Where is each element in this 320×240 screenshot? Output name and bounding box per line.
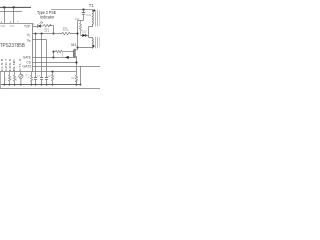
LED emission arrows [40, 22, 43, 25]
wire second rail [0, 11, 22, 13]
svg-text:TPS23785B: TPS23785B [0, 43, 26, 49]
wire VDD drop right [13, 7, 15, 23]
M1 source stub [75, 56, 77, 58]
wire gate branch stub [62, 52, 64, 58]
svg-text:D10: D10 [82, 31, 87, 34]
node gate branch lower [53, 57, 55, 59]
svg-text:49.9: 49.9 [44, 30, 49, 33]
resistor R10 corner [31, 72, 33, 85]
resistor R6 gate [56, 50, 63, 52]
wire drain to primary bottom [78, 46, 93, 48]
wire aux return vertical [80, 66, 82, 84]
wire right rail [51, 8, 93, 10]
wire VDD drop left [4, 7, 6, 23]
wire return rail [1, 84, 81, 86]
LED D1 indicator [37, 24, 39, 27]
wire left edge drop [0, 72, 2, 89]
node sense on rail [76, 84, 78, 86]
pin VB line [33, 39, 47, 41]
wire primary bottom [89, 26, 93, 28]
pin GATE line [33, 56, 74, 58]
resistor R3 FRS [9, 72, 11, 85]
secondary winding edge upper [98, 10, 100, 26]
diode D2 clamp [81, 34, 83, 36]
pin VC line [33, 33, 63, 35]
op-amp U1 TPS23785B box [0, 23, 33, 71]
wire VC cap1 vertical [35, 34, 37, 78]
svg-text:GATE: GATE [23, 56, 32, 60]
resistor R1 indicator series [44, 24, 52, 26]
svg-text:VSS: VSS [9, 25, 14, 28]
wire to gate resistor [54, 51, 56, 53]
wire top rail VDD [0, 6, 31, 8]
wire LED to R1 [41, 25, 44, 27]
pin GAT2 long line [33, 65, 101, 67]
potentiometer circle [19, 74, 23, 78]
capacitor C6 [34, 78, 37, 80]
svg-text:CLS 8: CLS 8 [0, 58, 4, 71]
resistor R8 clamp [80, 21, 82, 36]
resistor R14 sense [75, 75, 77, 82]
resistor R9 startup [62, 32, 70, 35]
wire VC cap2 vertical [41, 34, 43, 78]
node CS sense [76, 62, 78, 64]
capacitor C8 [45, 78, 48, 80]
wire RTN line from box corner [33, 71, 77, 73]
transformer core lines upper [96, 10, 98, 27]
pot CTL drop [20, 72, 22, 75]
transformer T1 primary winding [92, 9, 95, 26]
node T2P/VC junction [53, 33, 55, 35]
pin number speck T2P [33, 24, 34, 25]
wire clamp to winding tap [88, 27, 90, 38]
svg-text:C10: C10 [86, 14, 91, 17]
pin number speck third [17, 21, 18, 22]
diode D3 gate [65, 56, 68, 59]
capacitor C7 [40, 78, 43, 80]
svg-text:R18: R18 [75, 19, 80, 21]
pin CS line [33, 61, 77, 63]
svg-text:GAT2: GAT2 [22, 65, 31, 69]
capacitor C5 clamp [83, 9, 85, 12]
M1 channel bar [74, 49, 76, 58]
svg-text:FRS 6: FRS 6 [8, 58, 12, 71]
transformer core lines lower [96, 37, 98, 48]
wire bottom rail [0, 88, 100, 90]
svg-text:Indicator: Indicator [40, 15, 55, 20]
wire VB cap vertical [46, 40, 48, 78]
wire aux top [89, 36, 93, 38]
wire clamp node [78, 20, 84, 22]
svg-text:T2P: T2P [24, 24, 31, 28]
wire drain vertical [77, 21, 79, 50]
secondary winding edge lower [98, 37, 100, 47]
svg-text:R24: R24 [71, 77, 76, 80]
node gate branch upper [53, 51, 55, 53]
wire R1 to corner [49, 26, 54, 34]
svg-text:APD 7: APD 7 [4, 58, 8, 71]
svg-text:49.9k: 49.9k [63, 29, 70, 32]
svg-text:T1: T1 [89, 3, 95, 8]
svg-text:CTL 3: CTL 3 [18, 58, 22, 71]
node drain / startup R [77, 33, 79, 35]
node junction on top rail left [3, 6, 5, 8]
M1 drain stub [75, 49, 78, 51]
svg-text:VDD: VDD [0, 25, 5, 28]
wire source vertical [76, 57, 78, 76]
phase dot aux [93, 45, 95, 47]
node junction on top rail right [13, 6, 15, 8]
resistor R16 on RTN line [52, 71, 54, 73]
node clamp cap on rail [83, 9, 85, 11]
M1 gate bar [72, 50, 74, 58]
node aux return on rail [80, 84, 82, 86]
node cap C6 on rail [35, 84, 37, 86]
transformer T1 aux winding [92, 37, 95, 48]
wire APD pin drop [4, 72, 6, 85]
phase dot primary [93, 10, 95, 12]
resistor R4 BLNK [14, 72, 16, 85]
svg-text:BLNK: BLNK [12, 58, 16, 71]
wire gate resistor to M1 [62, 51, 73, 53]
node VC cap2 junction [41, 33, 43, 35]
wire R9 to drain node [70, 33, 78, 35]
node VC cap1 junction [35, 33, 37, 35]
wire gate branch vertical [53, 52, 55, 58]
svg-text:M1: M1 [71, 43, 76, 47]
node drain corner [77, 47, 79, 49]
pin T2P stub [33, 25, 38, 27]
